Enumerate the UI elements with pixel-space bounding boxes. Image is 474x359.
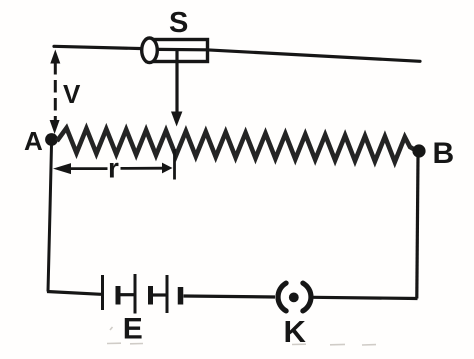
- node B (dot): [412, 144, 425, 157]
- scan smudges (faint): [107, 327, 376, 345]
- wire: left vertical from A down to bottom: [48, 145, 52, 292]
- svg-text:r: r: [108, 153, 119, 184]
- jockey S cylinder body: [142, 38, 208, 63]
- battery E (three cells): [103, 274, 181, 314]
- wire: bottom middle segment battery to key: [184, 296, 276, 297]
- svg-text:V: V: [63, 79, 81, 109]
- wire: top wire right segment from jockey to open right end: [206, 50, 420, 62]
- wire: right vertical from B down to bottom: [417, 157, 418, 299]
- svg-text:A: A: [24, 126, 43, 156]
- svg-text:B: B: [433, 137, 455, 170]
- voltmeter dashed arrow V (double headed): [50, 50, 61, 135]
- node A (dot): [45, 133, 58, 146]
- svg-text:E: E: [123, 313, 143, 346]
- svg-text:S: S: [169, 7, 188, 39]
- wire: top wire left segment from corner above A to jockey: [54, 46, 143, 48]
- dimension r (double arrow with end tick): [53, 149, 175, 180]
- resistor AB (potentiometer wire, zigzag): [57, 128, 416, 162]
- wire: bottom right segment key to right corner: [314, 297, 418, 298]
- wire: bottom left segment to battery: [47, 292, 101, 295]
- key K (plug key: circle arcs with centre dot): [278, 283, 311, 311]
- wire: tap from jockey down to resistor (arrow): [171, 50, 182, 127]
- wire through cylinder: [158, 48, 206, 52]
